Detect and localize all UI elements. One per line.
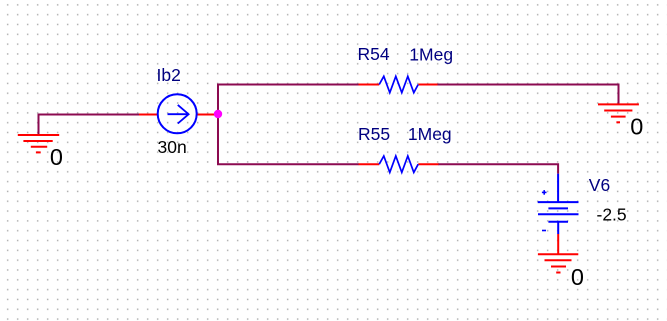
svg-text:0: 0: [571, 264, 584, 290]
svg-text:1Meg: 1Meg: [408, 124, 452, 144]
svg-text:R54: R54: [358, 44, 390, 64]
svg-text:30n: 30n: [158, 137, 187, 157]
svg-text:0: 0: [50, 144, 63, 170]
svg-text:V6: V6: [589, 175, 610, 195]
svg-text:0: 0: [630, 114, 643, 140]
svg-text:R55: R55: [358, 124, 390, 144]
svg-text:Ib2: Ib2: [157, 65, 181, 85]
svg-text:-2.5: -2.5: [597, 205, 627, 225]
svg-text:1Meg: 1Meg: [409, 44, 453, 64]
